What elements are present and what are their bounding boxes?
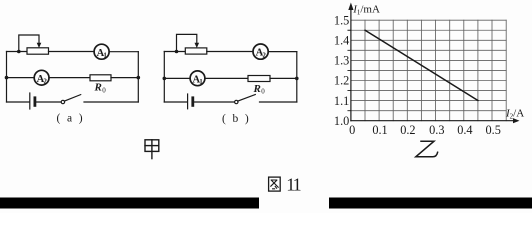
rheostat R (a) body	[27, 48, 49, 54]
circuit (b) middle wire segment left	[164, 77, 190, 79]
svg-text:0.5: 0.5	[486, 123, 501, 137]
graph y-axis I1	[348, 3, 353, 121]
ammeter A1 (b)	[190, 71, 205, 86]
graph y-axis minor ticks	[348, 30, 351, 110]
switch S (a)	[61, 95, 80, 104]
battery (b)	[188, 94, 193, 109]
rheostat R (a) wiper arm with arrow	[19, 35, 42, 52]
svg-text:11: 11	[286, 175, 300, 195]
svg-text:0.4: 0.4	[457, 123, 472, 137]
node junction dot (a) middle-right	[137, 76, 141, 80]
svg-text:( a ): ( a )	[56, 113, 84, 125]
circuit (b) top wire segment left	[164, 51, 185, 53]
circuit (b) right vertical wire	[296, 52, 298, 102]
node junction dot (a) top	[17, 50, 21, 54]
svg-text:0.3: 0.3	[429, 123, 444, 137]
circuit (b) top wire segment middle	[207, 51, 253, 53]
label jia (甲) drawn glyph	[145, 140, 159, 159]
node junction dot (a) middle-left	[5, 76, 9, 80]
circuit (a) middle wire segment right	[111, 77, 138, 79]
circuit (a) bottom wire segment right	[84, 101, 138, 103]
graph x tick labels	[349, 123, 501, 137]
circuit (a) middle wire segment left	[7, 77, 35, 79]
svg-text:I1/mA: I1/mA	[352, 3, 380, 16]
svg-text:0: 0	[102, 87, 106, 95]
circuit (a) left vertical wire	[6, 52, 8, 103]
label (a)	[56, 113, 84, 125]
circuit (a) top wire segment middle	[49, 51, 95, 53]
svg-text:1.4: 1.4	[334, 34, 349, 48]
caption black bar left	[0, 198, 259, 209]
circuit (a) top wire segment left	[7, 51, 28, 53]
circuit (b) bottom wire segment left	[164, 101, 187, 103]
ammeter A2 (b)	[253, 44, 268, 59]
label yi (乙) drawn glyph	[416, 141, 438, 157]
svg-text:1: 1	[103, 51, 107, 59]
node junction dot (b) middle-right	[295, 77, 299, 81]
node junction dot (b) top	[175, 50, 179, 54]
circuit (a) top wire segment right	[109, 51, 138, 53]
svg-text:0: 0	[349, 123, 355, 137]
circuit (b) bottom wire segment right	[260, 101, 297, 103]
svg-text:1.0: 1.0	[334, 114, 349, 128]
svg-text:2: 2	[262, 51, 266, 59]
resistor R0 (b) body	[248, 76, 270, 82]
svg-text:R: R	[94, 82, 102, 94]
svg-text:1: 1	[199, 78, 203, 86]
svg-text:2: 2	[43, 77, 47, 85]
svg-text:1.1: 1.1	[334, 94, 349, 108]
svg-text:I2/A: I2/A	[505, 107, 524, 120]
svg-text:0: 0	[261, 88, 265, 96]
circuit (a) middle wire segment centre	[49, 77, 90, 79]
resistor R0 (a) body	[90, 75, 111, 81]
svg-text:0.1: 0.1	[372, 123, 387, 137]
rheostat R (b) body	[185, 48, 207, 54]
graph y tick labels	[334, 13, 349, 128]
circuit (b) middle wire segment right	[270, 77, 297, 79]
svg-text:1.2: 1.2	[334, 74, 349, 88]
resistor R0 (a) value label	[94, 82, 107, 95]
graph grid	[351, 20, 506, 121]
caption tu (图) drawn glyph	[269, 177, 281, 191]
caption black bar right	[329, 198, 532, 209]
circuit (a) right vertical wire	[137, 52, 139, 102]
caption number 11	[286, 175, 300, 195]
ammeter A2 (a)	[34, 70, 49, 85]
svg-text:0.2: 0.2	[400, 123, 415, 137]
circuit (a) bottom wire segment middle	[36, 101, 61, 103]
graph y-axis label I1/mA	[352, 3, 380, 16]
svg-text:1.3: 1.3	[334, 54, 349, 68]
circuit (a) bottom wire segment left	[7, 101, 30, 103]
circuit (b) top wire segment right	[268, 51, 297, 53]
rheostat R (b) wiper arm with arrow	[177, 34, 200, 51]
graph x-axis label I2/A	[505, 107, 524, 120]
ammeter A1 (a)	[94, 44, 109, 59]
graph x-axis I2	[351, 118, 520, 123]
circuit (b) middle wire segment centre	[205, 77, 248, 79]
graph data line	[365, 30, 478, 100]
label (b)	[222, 113, 251, 125]
svg-text:R: R	[253, 83, 261, 95]
switch S (b)	[235, 95, 256, 104]
svg-text:1.5: 1.5	[334, 13, 349, 27]
resistor R0 (b) value label	[253, 83, 266, 96]
battery (a)	[30, 93, 35, 109]
circuit (b) left vertical wire	[163, 52, 165, 103]
node junction dot (b) middle-left	[163, 77, 167, 81]
svg-text:( b ): ( b )	[222, 113, 251, 125]
circuit (b) bottom wire segment middle	[194, 101, 234, 103]
